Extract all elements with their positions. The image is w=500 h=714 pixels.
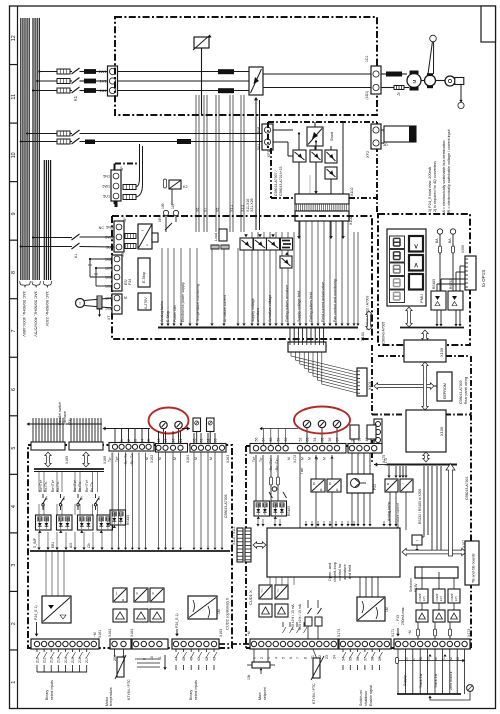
bus link double arrow — [366, 311, 372, 330]
frame ruler tick — [10, 356, 18, 358]
svg-text:212: 212 — [50, 657, 54, 663]
dash-dot enclosure box A (power section) — [115, 17, 377, 115]
svg-text:X9: X9 — [121, 253, 125, 257]
DC motor M1 — [407, 74, 421, 88]
svg-text:C98043-A7006: C98043-A7006 — [224, 494, 228, 518]
interface RS232 opto — [448, 291, 463, 310]
svg-text:3AC 50/60Hz, 400V-480V: 3AC 50/60Hz, 400V-480V — [22, 291, 27, 337]
svg-text:X102: X102 — [349, 216, 353, 225]
svg-text:X5: X5 — [216, 208, 220, 212]
svg-text:TB and CB boards: TB and CB boards — [472, 553, 476, 583]
svg-text:X21-X26: X21-X26 — [250, 198, 254, 212]
wires down from control box (left group) — [269, 577, 271, 585]
svg-text:−M: −M — [408, 630, 412, 635]
svg-text:X109: X109 — [439, 348, 444, 357]
red highlight ellipse 1 — [149, 408, 189, 434]
binary output transistor stage — [347, 474, 373, 493]
svg-text:2): 2) — [397, 92, 400, 96]
svg-text:X171: X171 — [391, 629, 395, 637]
svg-text:30: 30 — [193, 439, 197, 443]
svg-text:45: 45 — [182, 657, 186, 661]
armature feeder phase 1V1: tap, fuse, contactor K1 pole, reactor — [36, 80, 38, 82]
svg-text:UR = electronically switchable: UR = electronically switchable voltage /… — [447, 129, 451, 215]
svg-text:0-270V: 0-270V — [144, 297, 148, 309]
supply bus lines group 1 (5 conductors) — [20, 18, 22, 280]
terminal strip XT 103/104 — [112, 294, 122, 314]
svg-text:5N1: 5N1 — [106, 226, 113, 230]
terminal stubs 61-65 — [114, 429, 116, 444]
encoder return loop — [430, 692, 470, 701]
svg-text:Rx-/Tx-: Rx-/Tx- — [44, 481, 48, 492]
field converter thyristor V2 — [310, 150, 322, 162]
svg-text:∼: ∼ — [401, 482, 404, 486]
encoder terminal box — [455, 78, 464, 85]
svg-text:1: 1 — [253, 657, 257, 659]
analog tacho input A/D — [385, 479, 398, 492]
svg-text:54: 54 — [313, 438, 317, 442]
tachogenerator G1 — [421, 80, 425, 82]
svg-text:N10 ±1% / 10 mA: N10 ±1% / 10 mA — [298, 603, 302, 630]
svg-text:I act: I act — [300, 468, 304, 474]
svg-text:XP: XP — [123, 217, 127, 222]
svg-text:C98043-A7001: C98043-A7001 — [465, 476, 469, 500]
svg-text:M: M — [300, 457, 304, 460]
svg-text:8: 8 — [303, 657, 307, 659]
encoder cable wires below X173 — [397, 649, 399, 694]
analog tacho input conditioning box 0-270V — [138, 293, 151, 310]
svg-text:2: 2 — [260, 657, 264, 659]
svg-text:PMU: PMU — [419, 294, 424, 303]
field feeder: tap, fuse, switch — [26, 132, 28, 134]
E-Stop switch contact — [165, 216, 167, 233]
svg-text:∼: ∼ — [415, 538, 418, 543]
svg-text:P10 ±1% / 10 mA: P10 ±1% / 10 mA — [291, 604, 295, 630]
svg-text:44: 44 — [174, 657, 178, 661]
frame ruler tick — [10, 122, 18, 124]
svg-text:X164: X164 — [186, 455, 190, 463]
option boards slot TB and CB — [465, 541, 479, 585]
svg-text:5: 5 — [11, 447, 17, 450]
svg-text:X161: X161 — [98, 630, 102, 638]
svg-text:E±Y: E±Y — [454, 596, 458, 601]
fan supply enclosure dash-dot — [115, 163, 137, 165]
svg-text:CUD2 (optional) X: CUD2 (optional) X — [225, 597, 230, 630]
svg-text:D: D — [313, 482, 316, 486]
sense loop wires (CUD2) — [137, 658, 160, 660]
svg-text:C98043-A7014+15: C98043-A7014+15 — [279, 166, 283, 196]
svg-text:1V1: 1V1 — [100, 79, 107, 84]
dash-dot gap link — [219, 643, 250, 645]
comb bus (CUD1 row) — [262, 428, 298, 430]
frame ruler tick — [10, 415, 18, 417]
digital output driver (DAC) CUD2 — [42, 596, 71, 623]
terminal strip X163 (30-33) — [190, 444, 226, 453]
monitor stage lower — [280, 256, 292, 268]
svg-text:to OP1S: to OP1S — [481, 270, 486, 287]
svg-text:Parallel switch: Parallel switch — [58, 402, 62, 425]
svg-text:+Rx+/Tx+: +Rx+/Tx+ — [124, 452, 128, 466]
svg-text:53: 53 — [306, 438, 310, 442]
parallel interface comb connector X165 — [28, 423, 64, 425]
terminal strip X175 mid — [348, 444, 382, 454]
svg-text:X109: X109 — [439, 427, 444, 436]
svg-text:select inputs: select inputs — [50, 680, 54, 700]
CUD2 strip-to-bus wires — [111, 453, 113, 549]
fan supply feeders from bus — [32, 236, 34, 238]
reference switches — [307, 600, 309, 608]
svg-text:C98043-A7007 /: C98043-A7007 / — [274, 170, 278, 196]
svg-text:E±Y: E±Y — [422, 596, 426, 601]
armature DC output lines — [263, 73, 371, 75]
svg-text:X163: X163 — [226, 455, 230, 463]
svg-text:Electronics power supply: Electronics power supply — [181, 282, 185, 322]
connector X101 header — [288, 342, 326, 352]
svg-text:X162: X162 — [150, 455, 154, 463]
frame ruler line — [17, 6, 19, 709]
svg-text:M: M — [323, 457, 327, 460]
ribbon cable X102 upper connector — [295, 194, 349, 204]
svg-text:n: n — [136, 592, 138, 596]
terminal strip X177 — [374, 419, 382, 452]
connector X110/X111 board-to-board — [237, 528, 243, 562]
open and closed loop control processor — [267, 528, 400, 577]
encoder supply selector — [415, 567, 458, 578]
svg-text:204: 204 — [113, 655, 117, 661]
encoder collector bracket — [398, 660, 462, 662]
field converter thyristor V1 — [293, 150, 306, 162]
svg-text:20: 20 — [172, 439, 176, 443]
svg-text:Binary: Binary — [189, 690, 193, 700]
group braces — [20, 281, 30, 288]
svg-text:KTY84 / PTC: KTY84 / PTC — [127, 679, 131, 700]
svg-text:105: 105 — [105, 285, 111, 289]
svg-text:215: 215 — [71, 657, 75, 663]
svg-text:Supply voltage field: Supply voltage field — [297, 291, 301, 322]
field winding (motor field) with core bar — [384, 126, 416, 142]
svg-text:6: 6 — [289, 657, 293, 659]
dash-dot enclosure CUD2 (optional) — [28, 445, 232, 648]
svg-text:1C1: 1C1 — [365, 56, 369, 62]
svg-text:Tx+: Tx+ — [252, 456, 256, 462]
svg-text:∧: ∧ — [413, 261, 418, 270]
svg-text:9: 9 — [11, 212, 17, 215]
comb data arrows — [45, 452, 51, 467]
series resistor 2) in 1D1 line — [381, 87, 394, 89]
relay jumper block left 1 — [193, 418, 201, 432]
svg-text:Rx+/Tx+: Rx+/Tx+ — [39, 479, 43, 492]
PMU key up — [409, 255, 423, 271]
fan supply filters — [125, 234, 136, 239]
svg-text:52: 52 — [298, 438, 302, 442]
svg-text:110: 110 — [171, 204, 175, 209]
svg-text:XF2: XF2 — [365, 151, 370, 158]
svg-text:Fan control and monitoring: Fan control and monitoring — [333, 279, 337, 322]
binary output ramp driver (CUD2) — [188, 596, 217, 619]
fan feed curved wires — [136, 144, 140, 187]
terminal strip X164 (18-21) — [156, 444, 188, 453]
svg-text:−Rx−/Tx−: −Rx−/Tx− — [130, 452, 134, 466]
setpoint input switch hooks — [282, 622, 284, 627]
svg-text:1M: 1M — [217, 609, 221, 614]
svg-text:X102: X102 — [350, 187, 354, 196]
svg-text:X163: X163 — [219, 629, 223, 637]
shunt bar lower — [218, 88, 234, 93]
svg-text:X101: X101 — [360, 332, 365, 341]
svg-text:Binary: Binary — [45, 690, 49, 700]
frame ruler tick — [10, 298, 18, 300]
encoder comparator track 1 — [416, 589, 428, 603]
vertical data double arrow — [422, 362, 428, 410]
svg-text:X175: X175 — [384, 458, 388, 466]
svg-text:Load: Load — [214, 233, 218, 241]
svg-text:37: 37 — [363, 657, 367, 661]
svg-text:XR: XR — [158, 217, 162, 222]
load resistor boxes — [219, 229, 227, 241]
dash-dot rear panel boundary — [378, 355, 404, 357]
PMU key P — [409, 274, 423, 290]
bus termination resistors — [270, 477, 273, 485]
terminal comb bus (left row) — [105, 428, 150, 430]
serial converter box — [412, 535, 422, 545]
svg-text:107: 107 — [105, 267, 111, 271]
svg-text:S_IMP: S_IMP — [33, 537, 37, 548]
serial interface opto G-SST2 — [271, 501, 287, 516]
dash-dot enclosure CUD1 — [246, 445, 370, 447]
encoder comparator track 2 — [433, 589, 445, 603]
svg-text:X110 / X111: X110 / X111 — [232, 526, 236, 545]
svg-text:KTY84 / PTC: KTY84 / PTC — [312, 683, 316, 704]
dash-dot enclosure box C (electronics CUD) — [112, 216, 372, 339]
svg-text:X174: X174 — [337, 629, 341, 637]
encoder input resistors — [417, 629, 420, 636]
svg-text:E-Stop: E-Stop — [142, 272, 146, 283]
encoder comparator zero mark — [448, 589, 460, 603]
relay jumper block left 2 — [207, 418, 215, 432]
tacho source circle — [76, 299, 85, 308]
svg-text:200mA max.: 200mA max. — [401, 607, 405, 625]
svg-text:P24_S 1): P24_S 1) — [175, 613, 179, 628]
supply bus lines group 3 (4 conductors) — [43, 160, 45, 280]
terminal strip X172 top — [250, 444, 346, 454]
seven-segment digit 2 — [390, 250, 405, 263]
svg-text:Track 1 ▸: Track 1 ▸ — [419, 673, 423, 688]
svg-text:21: 21 — [179, 439, 183, 443]
svg-text:E-Stop: E-Stop — [166, 311, 170, 322]
svg-text:EEPROM: EEPROM — [443, 383, 447, 399]
interface RS485 opto — [431, 291, 446, 310]
svg-text:COMP: COMP — [435, 593, 439, 601]
svg-text:XP: XP — [120, 166, 124, 171]
svg-text:A/X: A/X — [69, 542, 73, 548]
svg-text:Rx-/Tx-: Rx-/Tx- — [90, 481, 94, 492]
svg-text:Main: Main — [258, 692, 262, 700]
horizontal data double arrow — [374, 383, 434, 389]
svg-text:M: M — [287, 457, 291, 460]
svg-text:X166: X166 — [103, 456, 107, 464]
svg-text:X3.1: X3.1 — [230, 205, 234, 212]
svg-text:42: 42 — [205, 657, 209, 661]
terminal strip XP 5N1/5W1/5U1 — [114, 221, 124, 252]
analog select channels (CUD2) — [134, 588, 148, 602]
field converter sensor I — [325, 167, 337, 179]
svg-text:Gating pulses armature: Gating pulses armature — [285, 285, 289, 322]
svg-text:RS485: RS485 — [287, 506, 291, 516]
supply bus lines group 2 (4 conductors) — [32, 18, 34, 280]
svg-text:33: 33 — [214, 439, 218, 443]
svg-text:3: 3 — [11, 564, 17, 567]
svg-text:217: 217 — [85, 657, 89, 663]
paralleling opto couplers group 2 — [57, 515, 73, 530]
svg-text:1AC 50/60Hz, 230V: 1AC 50/60Hz, 230V — [45, 291, 50, 327]
svg-text:210: 210 — [35, 657, 39, 663]
svg-text:35: 35 — [349, 657, 353, 661]
E-Stop electronics box — [138, 258, 150, 287]
commutation reactor after 1C1 (black bar) — [381, 73, 386, 75]
svg-text:Track 2 ▸: Track 2 ▸ — [434, 673, 438, 688]
rear bus feeds to A/D converters — [388, 466, 390, 476]
svg-text:n: n — [152, 592, 154, 596]
bus below X109 — [423, 452, 429, 462]
connector X109 upper — [404, 340, 446, 362]
svg-text:EB1: EB1 — [51, 542, 55, 548]
svg-text:12: 12 — [11, 35, 17, 41]
terminal strip X162 — [109, 443, 154, 452]
svg-text:5: 5 — [282, 657, 286, 659]
field gating stage — [281, 238, 293, 250]
svg-text:−M: −M — [93, 632, 97, 637]
svg-text:58: 58 — [269, 438, 273, 442]
svg-text:select inputs: select inputs — [194, 680, 198, 700]
frame ruler tick — [10, 239, 18, 241]
relay jumper blocks above X175 — [350, 425, 359, 439]
setpoint A/D converters (CUD1) — [259, 585, 272, 599]
terminal strip X161 — [31, 639, 99, 649]
terminal block XF1 3U1/3W1 — [262, 124, 273, 150]
svg-text:8: 8 — [11, 271, 17, 274]
svg-text:5U1: 5U1 — [106, 246, 113, 250]
svg-text:6: 6 — [11, 388, 17, 391]
svg-text:213: 213 — [57, 657, 61, 663]
svg-text:Supply: Supply — [403, 675, 407, 686]
terminal strip X163 (CUD2) — [172, 639, 219, 649]
svg-text:X164: X164 — [108, 629, 112, 637]
svg-text:→ P15: → P15 — [396, 615, 400, 625]
EEPROM — [437, 372, 452, 401]
frame ruler tick — [10, 181, 18, 183]
svg-text:C98043-A7009: C98043-A7009 — [459, 380, 463, 404]
svg-text:Rx+/Tx+: Rx+/Tx+ — [85, 479, 89, 492]
electronics power supply converter — [138, 224, 152, 249]
svg-text:Field current actual value: Field current actual value — [321, 282, 325, 322]
svg-text:108: 108 — [105, 258, 111, 262]
svg-text:Tx−: Tx− — [108, 456, 112, 462]
svg-text:X6: X6 — [196, 208, 200, 212]
armature feeder phase 1W1: tap, fuse, contactor K1 pole, reactor — [38, 70, 40, 72]
wires optos to control box — [257, 519, 259, 525]
svg-text:38: 38 — [371, 657, 375, 661]
paralleling opto couplers group 3 — [78, 515, 94, 530]
terminal block 1C1/1D1 — [371, 66, 381, 94]
frame ruler tick — [10, 649, 18, 651]
svg-text:K1: K1 — [73, 95, 78, 101]
pulse encoder — [436, 80, 446, 82]
termination switches BA — [269, 492, 273, 498]
svg-text:11: 11 — [11, 94, 17, 100]
svg-text:2) is required for 4Q converte: 2) is required for 4Q converters — [433, 161, 437, 212]
field bridge wiring — [273, 129, 293, 131]
svg-text:5N1: 5N1 — [103, 175, 110, 179]
X300 wiring — [436, 284, 438, 291]
svg-text:∨: ∨ — [413, 242, 418, 251]
svg-text:106: 106 — [105, 276, 111, 280]
fan supply filters — [123, 185, 136, 190]
tacho output terminal circle — [430, 35, 437, 42]
dash-dot enclosure box D (PMU) — [378, 214, 470, 345]
X9 selector bracket wiring — [90, 258, 112, 260]
internal signal risers to backplane bus — [161, 248, 163, 325]
svg-text:1: 1 — [11, 681, 17, 684]
screw terminals under red ellipse 1 — [160, 421, 167, 428]
svg-text:1U1: 1U1 — [99, 88, 106, 93]
frame top-right notch box — [481, 6, 496, 42]
svg-text:(Z4): (Z4) — [68, 418, 72, 425]
svg-text:shutdown: shutdown — [364, 691, 368, 706]
svg-text:23: 23 — [325, 655, 329, 659]
terminal strip X173 — [394, 639, 470, 649]
paralleling opto couplers group 1 — [36, 515, 52, 530]
armature feeder phase 1U1: tap, fuse, contactor K1 pole, reactor — [32, 89, 34, 91]
paralleling opto couplers group 4 — [97, 515, 113, 530]
svg-text:RS485: RS485 — [432, 279, 436, 289]
field converter sensor U — [325, 150, 337, 163]
svg-text:3D: 3D — [383, 143, 388, 147]
svg-text:Gating pulses field: Gating pulses field — [309, 292, 313, 322]
svg-text:X7: X7 — [204, 208, 208, 212]
svg-text:1M: 1M — [385, 607, 389, 612]
gating pulse amplifier stages — [240, 238, 253, 250]
svg-text:Rx+/Tx+: Rx+/Tx+ — [51, 479, 55, 492]
armature thyristor converter U1 — [249, 67, 263, 95]
frame ruler tick — [10, 473, 18, 475]
svg-text:4: 4 — [11, 505, 17, 508]
svg-text:46: 46 — [190, 657, 194, 661]
shunt bar upper — [218, 69, 234, 74]
svg-text:C98043-A7005: C98043-A7005 — [382, 322, 386, 344]
svg-text:M: M — [124, 296, 127, 300]
svg-text:K2: K2 — [183, 185, 188, 189]
svg-text:D: D — [329, 482, 332, 486]
svg-text:Shunt: Shunt — [330, 132, 334, 141]
terminal block XF2 3C/3D — [371, 124, 381, 149]
svg-text:P24_S 1): P24_S 1) — [34, 605, 38, 620]
svg-text:(1D1): (1D1) — [365, 91, 369, 100]
svg-text:M: M — [194, 457, 198, 460]
encoder amplifier track 2 — [433, 610, 445, 622]
svg-text:RS232 / RS485 to X300: RS232 / RS485 to X300 — [418, 489, 422, 524]
svg-text:109: 109 — [161, 203, 165, 209]
frame ruler tick — [10, 590, 18, 592]
svg-text:BA = electronically switchable: BA = electronically switchable bus termi… — [442, 140, 446, 215]
terminal BA circles — [437, 229, 442, 234]
svg-text:11: 11 — [158, 656, 162, 660]
seven-segment digit 5 — [390, 290, 405, 303]
svg-text:34: 34 — [341, 657, 345, 661]
svg-text:211: 211 — [43, 657, 47, 663]
svg-text:Supply voltage: Supply voltage — [251, 298, 255, 322]
KTY84/PTC thermistor (CUD1) — [313, 658, 320, 678]
parallel interface comb connector X166 — [66, 423, 102, 425]
termination switches with 8A — [42, 494, 44, 498]
